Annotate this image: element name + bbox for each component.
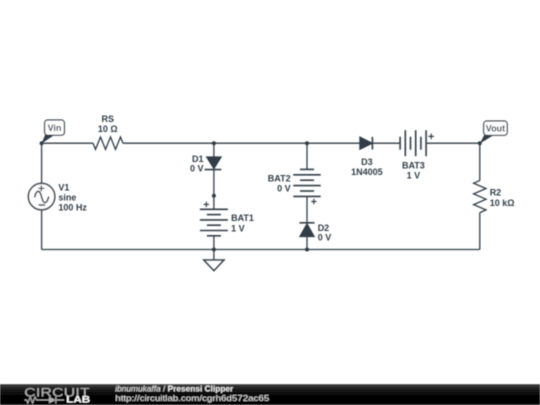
svg-text:V1: V1 — [58, 182, 69, 192]
svg-text:BAT3: BAT3 — [402, 160, 425, 170]
voltage source V1 — [28, 183, 54, 209]
svg-text:0 V: 0 V — [277, 184, 291, 194]
diode D2 — [300, 223, 315, 237]
wire: BAT3 to Vout node — [426, 142, 480, 144]
svg-text:100 Hz: 100 Hz — [58, 202, 87, 212]
svg-text:http://circuitlab.com/cgrh6d57: http://circuitlab.com/cgrh6d572ac65 — [115, 394, 270, 403]
node: D1 top junction dot — [212, 141, 216, 145]
logo circuit glyph: resistor zigzag — [25, 397, 39, 403]
svg-text:LAB: LAB — [66, 396, 90, 405]
wire: D1 to BAT1 — [213, 170, 215, 196]
node: BAT1 bottom junction dot — [212, 248, 216, 252]
svg-text:10 kΩ: 10 kΩ — [490, 198, 515, 208]
node Vin junction dot — [40, 141, 44, 145]
BAT3 plus sign — [428, 134, 434, 140]
battery BAT2 — [293, 169, 320, 196]
net flag Vin — [41, 120, 64, 144]
svg-text:sine: sine — [58, 192, 76, 202]
svg-text:1N4005: 1N4005 — [351, 167, 383, 177]
BAT1 plus sign — [204, 202, 209, 207]
resistor R2 — [474, 181, 486, 213]
node Vout junction dot — [478, 141, 482, 145]
wire: right branch bottom — [479, 213, 481, 250]
diode D3 — [360, 137, 373, 150]
wire: D3 to BAT3 — [372, 142, 400, 144]
svg-text:Vout: Vout — [486, 124, 505, 134]
net flag Vout — [480, 121, 507, 144]
svg-text:ibnumukaffa / Presensi Clipper: ibnumukaffa / Presensi Clipper — [115, 385, 234, 394]
svg-text:D3: D3 — [361, 157, 373, 167]
wire: node to D1 — [213, 143, 215, 157]
svg-text:10 Ω: 10 Ω — [98, 124, 118, 134]
svg-text:R2: R2 — [490, 187, 502, 197]
svg-text:BAT1: BAT1 — [231, 213, 254, 223]
logo circuit glyph: wire — [39, 399, 49, 401]
svg-text:0 V: 0 V — [318, 232, 332, 242]
wire: top rail from RS to D3 — [123, 142, 360, 144]
svg-text:1 V: 1 V — [231, 224, 245, 234]
wire: right branch top — [479, 143, 481, 180]
node: D2 bottom junction dot — [305, 248, 309, 252]
wire: node to BAT1 top plate — [213, 196, 215, 210]
svg-text:1 V: 1 V — [407, 170, 421, 180]
diode D1 — [205, 157, 222, 170]
wire: left branch bottom — [41, 210, 43, 250]
battery BAT3 — [400, 130, 426, 156]
svg-text:BAT2: BAT2 — [268, 173, 291, 183]
wire: D2 to bottom rail — [306, 237, 308, 250]
footer bar — [0, 384, 540, 405]
svg-text:Vin: Vin — [48, 123, 62, 133]
wire: node to BAT2 — [306, 143, 308, 169]
resistor RS — [93, 137, 123, 149]
battery BAT1 — [200, 209, 228, 236]
svg-text:RS: RS — [102, 114, 115, 124]
wire: top rail from Vin node to RS — [42, 142, 93, 144]
node: D1-BAT1 junction dot — [212, 194, 216, 198]
wire: BAT1 to bottom rail — [213, 236, 215, 250]
wire: BAT2 to D2 — [306, 196, 308, 222]
ground — [204, 250, 224, 271]
svg-text:0 V: 0 V — [190, 163, 204, 173]
BAT2 plus sign — [311, 199, 316, 204]
node: BAT2 top junction dot — [305, 141, 309, 145]
wire: bottom rail — [42, 249, 480, 251]
logo circuit glyph: diode — [49, 397, 56, 404]
wire: left branch top — [41, 143, 43, 183]
